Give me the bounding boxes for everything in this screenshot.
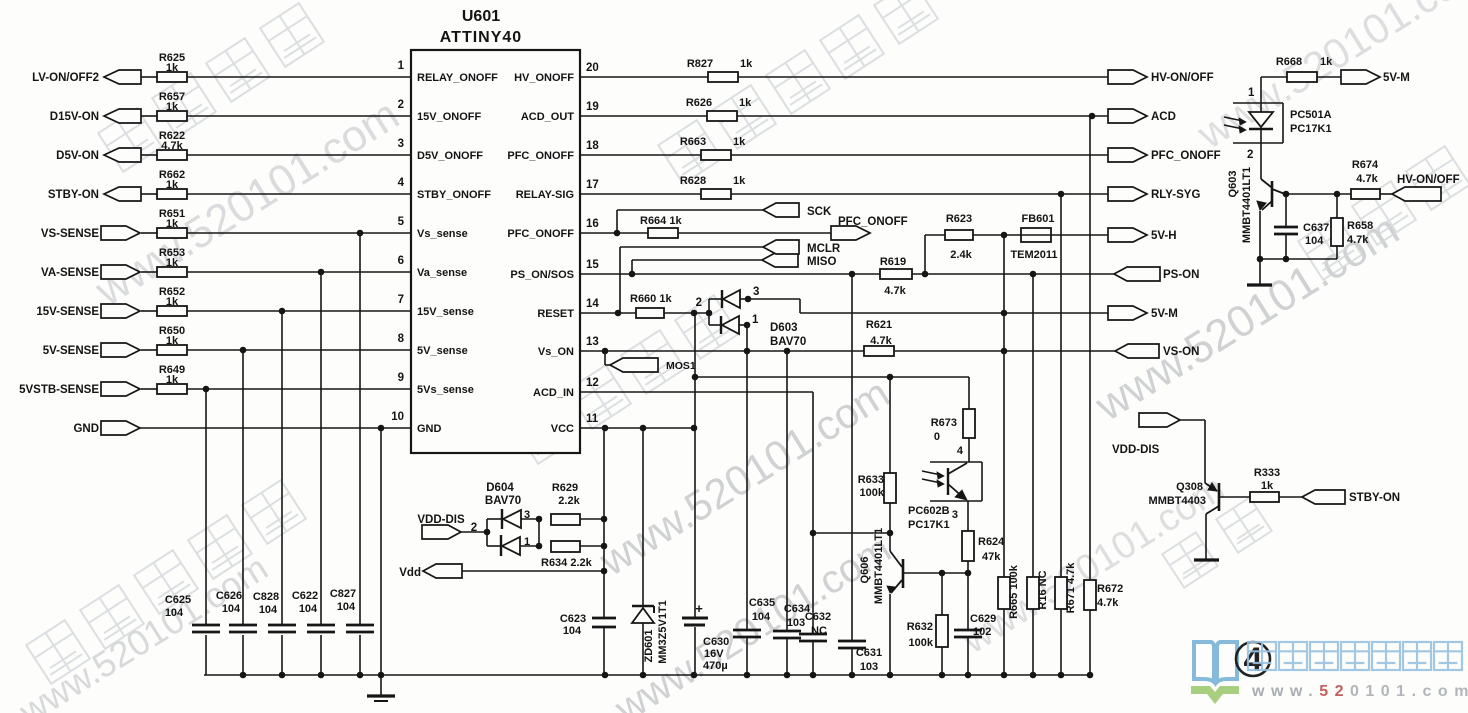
wire	[320, 272, 322, 625]
svg-text:MMBT4403: MMBT4403	[1149, 495, 1206, 507]
svg-text:R632: R632	[907, 621, 933, 633]
node VS-ON output arrow	[1115, 344, 1159, 358]
node junction R623 tap	[922, 271, 929, 278]
svg-text:R827: R827	[687, 58, 713, 70]
svg-text:C630: C630	[703, 636, 729, 648]
wire	[889, 503, 891, 533]
svg-text:R619: R619	[880, 256, 906, 268]
svg-text:HV_ONOFF: HV_ONOFF	[514, 72, 574, 84]
wire	[1279, 496, 1302, 498]
node 3	[745, 296, 752, 303]
svg-text:VDD-DIS: VDD-DIS	[417, 514, 465, 526]
svg-text:104: 104	[752, 611, 771, 623]
svg-text:R658: R658	[1347, 220, 1373, 232]
svg-text:1k: 1k	[166, 62, 179, 74]
svg-text:R672: R672	[1097, 583, 1123, 595]
svg-text:R665 100k: R665 100k	[1008, 564, 1020, 619]
svg-text:4: 4	[957, 445, 964, 457]
wire	[580, 193, 701, 195]
svg-text:STBY-ON: STBY-ON	[48, 189, 99, 201]
svg-text:100k: 100k	[860, 487, 885, 499]
wire	[141, 232, 157, 234]
wire	[1380, 193, 1392, 195]
wire	[538, 519, 540, 546]
wire	[1180, 419, 1205, 421]
svg-text:C631: C631	[856, 647, 882, 659]
svg-text:STBY_ONOFF: STBY_ONOFF	[417, 189, 491, 201]
wire	[187, 193, 411, 195]
svg-text:PFC_ONOFF: PFC_ONOFF	[838, 216, 908, 228]
svg-text:RELAY_ONOFF: RELAY_ONOFF	[417, 72, 498, 84]
node junction	[965, 570, 972, 577]
node MOS1 arrow	[610, 358, 658, 372]
svg-text:1k: 1k	[166, 374, 179, 386]
svg-text:RESET: RESET	[537, 308, 574, 320]
node junction	[484, 529, 491, 536]
node PFC_ONOFF arrow	[831, 226, 870, 240]
svg-text:104: 104	[165, 607, 184, 619]
wire	[642, 428, 644, 605]
wire	[851, 274, 853, 641]
resistor R653	[157, 267, 187, 277]
wire	[281, 311, 283, 625]
node STBY-ON input arrow	[104, 187, 141, 201]
node HV-ON/OFF output arrow	[1108, 70, 1147, 84]
optocoupler PC501A PC17K1 LED side	[1233, 102, 1283, 104]
svg-text:MOS1: MOS1	[666, 360, 696, 372]
capacitor C626	[229, 624, 257, 627]
svg-text:ACD_OUT: ACD_OUT	[521, 111, 574, 123]
svg-text:1k: 1k	[166, 296, 179, 308]
resistor R650	[157, 345, 187, 355]
capacitor C622	[307, 624, 335, 627]
wire	[968, 377, 970, 409]
svg-text:1: 1	[752, 314, 759, 326]
resistor R668	[1287, 72, 1317, 82]
resistor R619	[880, 269, 912, 279]
svg-text:www.520101.com: www.520101.com	[1251, 683, 1468, 700]
svg-text:R624: R624	[978, 536, 1005, 548]
wire	[141, 310, 157, 312]
logo chinese text	[1248, 642, 1462, 670]
resistor R827	[708, 72, 738, 82]
wire	[141, 349, 157, 351]
node junction	[887, 530, 894, 537]
wire	[1260, 77, 1262, 103]
wire	[731, 154, 1108, 156]
node 5VSTB-SENSE input arrow	[101, 382, 140, 396]
resistor R333	[1250, 492, 1279, 502]
node VDD-DIS arrow	[1139, 413, 1180, 427]
svg-text:PC17K1: PC17K1	[1290, 123, 1332, 135]
wire pin14	[580, 312, 636, 314]
svg-text:R333: R333	[1254, 467, 1280, 479]
svg-text:C629: C629	[970, 613, 996, 625]
svg-text:13: 13	[586, 336, 599, 348]
node Vdd arrow	[423, 564, 462, 578]
svg-text:0: 0	[934, 431, 940, 443]
svg-text:2: 2	[1247, 149, 1253, 161]
svg-text:MMBT4401LT1: MMBT4401LT1	[1241, 167, 1253, 243]
wire MISO branch	[631, 260, 633, 274]
node SCK arrow	[763, 203, 799, 217]
node MISO arrow	[762, 253, 798, 267]
svg-text:5Vs_sense: 5Vs_sense	[417, 384, 474, 396]
svg-text:C637: C637	[1303, 222, 1329, 234]
svg-text:8: 8	[398, 333, 405, 345]
svg-text:2.2k: 2.2k	[558, 495, 580, 507]
svg-text:MCLR: MCLR	[807, 243, 841, 255]
node junction C631 tap	[849, 271, 856, 278]
node STBY-ON arrow	[1302, 490, 1345, 504]
svg-text:PFC_ONOFF: PFC_ONOFF	[507, 150, 574, 162]
wire	[359, 233, 361, 625]
svg-text:47k: 47k	[982, 551, 1001, 563]
svg-text:9: 9	[398, 372, 404, 384]
svg-text:5V-H: 5V-H	[1151, 230, 1177, 242]
svg-text:C828: C828	[253, 591, 279, 603]
svg-text:Q606: Q606	[859, 557, 871, 584]
wire	[1260, 258, 1337, 260]
IC U601 ATTINY40	[411, 50, 580, 453]
svg-text:R621: R621	[866, 319, 892, 331]
node junction	[601, 568, 608, 575]
svg-text:2: 2	[398, 99, 404, 111]
node HV-ON/OFF arrow	[1392, 187, 1441, 201]
node junction	[1001, 310, 1008, 317]
svg-text:103: 103	[860, 661, 878, 673]
svg-text:3: 3	[398, 138, 404, 150]
svg-text:Va_sense: Va_sense	[417, 267, 467, 279]
wire collector line	[1283, 193, 1351, 195]
resistor R649	[157, 384, 187, 394]
node junction C625 tap	[203, 386, 210, 393]
resistor R16 NC	[1027, 577, 1039, 609]
wire	[1089, 116, 1091, 580]
optocoupler PC602B PC17K1	[930, 461, 982, 463]
resistor R657	[157, 111, 187, 121]
svg-text:3: 3	[524, 509, 530, 521]
capacitor C630 16V 470u electrolytic	[682, 617, 708, 620]
node junction C622 tap	[318, 269, 325, 276]
svg-text:C623: C623	[560, 613, 586, 625]
diode D604 BAV70	[486, 519, 488, 546]
capacitor C634	[773, 630, 801, 633]
svg-text:R634 2.2k: R634 2.2k	[541, 557, 593, 569]
wire bottom ground rail	[204, 674, 1092, 676]
svg-text:7: 7	[398, 294, 404, 306]
svg-text:1k: 1k	[733, 175, 746, 187]
resistor R658	[1336, 194, 1338, 218]
wire	[737, 115, 1108, 117]
wire	[187, 310, 411, 312]
capacitor C637	[1285, 194, 1287, 227]
wire	[242, 350, 244, 625]
svg-text:Vs_sense: Vs_sense	[417, 228, 468, 240]
resistor R665	[998, 577, 1010, 609]
logo circled 4	[1236, 642, 1270, 676]
svg-text:D15V-ON: D15V-ON	[50, 111, 99, 123]
svg-text:D5V_ONOFF: D5V_ONOFF	[417, 150, 483, 162]
svg-text:PC602B: PC602B	[908, 505, 950, 517]
svg-text:5V-SENSE: 5V-SENSE	[43, 345, 100, 357]
node junction	[1283, 256, 1290, 263]
node ACD output arrow	[1108, 109, 1147, 123]
node junction	[602, 348, 609, 355]
capacitor C828	[268, 624, 296, 627]
svg-text:104: 104	[299, 603, 318, 615]
svg-text:BAV70: BAV70	[485, 495, 521, 507]
node junction C626 tap	[240, 347, 247, 354]
transistor Q308 MMBT4403	[1205, 483, 1217, 491]
svg-text:103: 103	[787, 617, 805, 629]
transistor Q606 MMBT4401LT1	[889, 533, 891, 551]
svg-text:5V-M: 5V-M	[1383, 72, 1410, 84]
ground	[1194, 558, 1219, 561]
svg-text:4.7k: 4.7k	[870, 335, 892, 347]
svg-text:102: 102	[973, 626, 991, 638]
svg-text:LV-ON/OFF2: LV-ON/OFF2	[32, 72, 99, 84]
diode D603 BAV70	[708, 299, 710, 325]
svg-text:C625: C625	[165, 594, 191, 606]
wire	[380, 428, 382, 675]
wire	[187, 349, 411, 351]
resistor R664	[648, 228, 678, 238]
svg-text:1k: 1k	[740, 58, 753, 70]
svg-text:5V_sense: 5V_sense	[417, 345, 468, 357]
node PFC_ONOFF output arrow	[1108, 148, 1147, 162]
svg-text:15V_sense: 15V_sense	[417, 306, 474, 318]
svg-text:2: 2	[696, 297, 702, 309]
resistor R660	[636, 308, 664, 318]
resistor R625	[157, 72, 187, 82]
wire	[894, 350, 1115, 352]
svg-text:15: 15	[586, 259, 599, 271]
svg-text:VDD-DIS: VDD-DIS	[1112, 444, 1160, 456]
node PS-ON output arrow	[1114, 267, 1160, 281]
svg-text:ATTINY40: ATTINY40	[440, 29, 522, 46]
wire	[187, 115, 411, 117]
node RLY-SYG output arrow	[1108, 187, 1147, 201]
wire	[187, 271, 411, 273]
wire	[912, 273, 1114, 275]
svg-text:1k: 1k	[166, 101, 179, 113]
svg-text:R628: R628	[680, 175, 706, 187]
capacitor C625	[192, 624, 220, 627]
svg-text:12: 12	[586, 377, 599, 389]
svg-text:104: 104	[222, 603, 241, 615]
wire	[694, 313, 696, 617]
svg-text:C622: C622	[292, 590, 318, 602]
svg-text:C827: C827	[330, 588, 356, 600]
node 5V-M output arrow	[1108, 306, 1147, 320]
ground	[1259, 259, 1261, 285]
resistor R673	[963, 409, 975, 438]
svg-text:Vdd: Vdd	[399, 567, 421, 579]
resistor R633	[884, 473, 896, 503]
node 1	[536, 543, 543, 550]
svg-text:MMBT4401LT1: MMBT4401LT1	[873, 528, 885, 604]
node junction C827 tap	[357, 230, 364, 237]
svg-text:20: 20	[586, 62, 599, 74]
svg-text:104: 104	[337, 601, 356, 613]
svg-text:15V_ONOFF: 15V_ONOFF	[417, 111, 481, 123]
node junction	[629, 271, 636, 278]
svg-text:Vs_ON: Vs_ON	[538, 346, 574, 358]
wire	[187, 154, 411, 156]
wire	[580, 518, 604, 520]
node junction	[614, 230, 621, 237]
wire pin16	[580, 232, 648, 234]
svg-text:5V-M: 5V-M	[1151, 308, 1178, 320]
svg-text:GND: GND	[73, 423, 99, 435]
wire	[141, 115, 157, 117]
svg-text:BAV70: BAV70	[770, 336, 806, 348]
svg-text:PFC_ONOFF: PFC_ONOFF	[507, 228, 574, 240]
wire	[140, 427, 411, 429]
svg-text:VCC: VCC	[551, 423, 574, 435]
node junction D603 pin1	[744, 348, 751, 355]
node junction	[810, 530, 817, 537]
svg-text:R673: R673	[931, 417, 957, 429]
node junction	[1257, 256, 1264, 263]
wire	[1051, 234, 1108, 236]
svg-text:100k: 100k	[909, 637, 934, 649]
node GND junction	[378, 425, 385, 432]
svg-text:16V: 16V	[704, 648, 724, 660]
svg-text:4.7k: 4.7k	[884, 285, 906, 297]
ground	[380, 675, 382, 696]
svg-text:PC501A: PC501A	[1290, 109, 1332, 121]
svg-text:D603: D603	[770, 322, 798, 334]
wire	[889, 377, 891, 473]
wire VCC bus	[603, 428, 605, 618]
resistor R624	[967, 513, 969, 531]
resistor R623	[945, 230, 973, 240]
node 5V-SENSE input arrow	[101, 343, 140, 357]
logo book icon	[1194, 642, 1237, 682]
wire pin4	[968, 438, 970, 462]
svg-text:1: 1	[398, 60, 405, 72]
svg-text:D604: D604	[486, 482, 514, 494]
svg-text:15V-SENSE: 15V-SENSE	[36, 306, 99, 318]
svg-text:STBY-ON: STBY-ON	[1349, 492, 1400, 504]
svg-text:SCK: SCK	[807, 206, 832, 218]
resistor R634	[551, 541, 580, 552]
node D15V-ON input arrow	[104, 109, 141, 123]
node junction	[601, 516, 608, 523]
svg-text:U601: U601	[462, 8, 500, 25]
ferrite bead FB601 TEM2011	[1021, 228, 1051, 242]
wire	[731, 193, 1108, 195]
resistor R628	[701, 189, 731, 199]
svg-text:ACD: ACD	[1151, 111, 1176, 123]
svg-text:10: 10	[391, 411, 404, 423]
wire	[580, 154, 701, 156]
svg-text:104: 104	[1305, 235, 1324, 247]
capacitor C631	[838, 640, 866, 643]
svg-text:R671 4.7k: R671 4.7k	[1065, 562, 1077, 614]
node junction	[1283, 191, 1290, 198]
node junction R665 tap	[1001, 348, 1008, 355]
resistor R671	[1055, 577, 1067, 609]
svg-text:4: 4	[398, 177, 405, 189]
wire	[141, 388, 157, 390]
node junction	[706, 310, 713, 317]
wire	[141, 193, 157, 195]
svg-text:1: 1	[524, 536, 530, 548]
wire	[1060, 194, 1062, 577]
wire pin12 ACD_IN	[580, 391, 813, 393]
svg-text:VA-SENSE: VA-SENSE	[41, 267, 99, 279]
svg-text:104: 104	[259, 604, 278, 616]
svg-text:5: 5	[398, 216, 405, 228]
wire SCK branch	[616, 210, 618, 233]
svg-text:R626: R626	[686, 97, 712, 109]
wire	[746, 325, 748, 630]
svg-text:18: 18	[586, 140, 599, 152]
wire	[1032, 274, 1034, 577]
wire	[461, 531, 487, 533]
node junction R16 tap	[1030, 271, 1037, 278]
resistor R629	[551, 514, 580, 525]
transistor Q603 MMBT4401LT1	[1260, 143, 1262, 179]
node 1	[744, 322, 751, 329]
wire	[187, 388, 411, 390]
svg-text:D5V-ON: D5V-ON	[56, 150, 99, 162]
svg-text:1k: 1k	[166, 218, 179, 230]
svg-text:14: 14	[586, 298, 599, 310]
wire	[580, 115, 707, 117]
svg-text:Q603: Q603	[1227, 171, 1239, 198]
wire	[1003, 235, 1005, 577]
svg-text:MM3Z5V1T1: MM3Z5V1T1	[657, 600, 669, 664]
wire	[141, 271, 157, 273]
svg-text:FB601: FB601	[1021, 213, 1054, 225]
resistor R621	[864, 346, 894, 356]
wire	[813, 532, 890, 534]
node junction	[692, 374, 699, 381]
node junction	[939, 570, 946, 577]
wire	[664, 312, 710, 314]
svg-text:NC: NC	[811, 625, 827, 637]
capacitor C629	[967, 573, 969, 630]
wire pin11 VCC	[580, 427, 695, 429]
node 15V-SENSE input arrow	[101, 304, 140, 318]
wire	[141, 154, 157, 156]
node junction	[1058, 191, 1065, 198]
wire MCLR branch	[619, 247, 621, 313]
svg-text:104: 104	[563, 625, 582, 637]
svg-text:+: +	[695, 601, 703, 616]
svg-text:HV-ON/OFF: HV-ON/OFF	[1397, 174, 1460, 186]
svg-text:4.7k: 4.7k	[1347, 234, 1369, 246]
svg-text:R663: R663	[680, 136, 706, 148]
resistor R626	[707, 111, 737, 121]
wire	[973, 234, 1021, 236]
resistor R652	[157, 306, 187, 316]
svg-text:1k: 1k	[733, 136, 746, 148]
svg-text:17: 17	[586, 179, 599, 191]
wire pin13	[580, 350, 864, 352]
node junction	[1089, 113, 1096, 120]
svg-text:19: 19	[586, 101, 599, 113]
svg-text:2.4k: 2.4k	[950, 249, 972, 261]
svg-text:1k: 1k	[1320, 56, 1333, 68]
svg-text:R633: R633	[858, 474, 884, 486]
svg-text:R623: R623	[946, 213, 972, 225]
svg-text:16: 16	[586, 218, 599, 230]
